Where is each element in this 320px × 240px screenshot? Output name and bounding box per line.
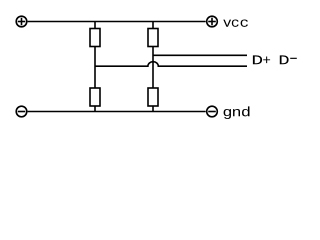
resistor R4 (bottom-right box) [148,88,158,106]
wire stub bottom of R4 [152,106,154,112]
wire stub top of R2 [152,22,154,29]
label D+ D- [253,55,289,64]
wire stub bottom of R3 [94,106,96,112]
wire stub top of R1 [94,22,96,29]
wire R2 bottom to R4 top [152,47,154,89]
resistor R3 (bottom-left box) [90,88,100,106]
terminal - bottom-left [16,106,27,117]
wire D- line with hop over vertical wire [95,62,247,67]
terminal + top-right vcc [207,16,218,27]
wire R1 bottom to R3 top [94,47,96,89]
terminal + top-left [16,16,27,27]
resistor R2 (top-right box) [148,29,158,47]
label gnd [224,106,250,119]
resistor R1 (top-left box) [90,29,100,47]
label vcc [223,19,248,26]
wire gnd rail [28,111,206,113]
label D- minus sign [290,58,297,59]
terminal - bottom-right gnd [207,106,218,117]
wire vcc rail [28,21,206,23]
wire D+ line [153,54,247,56]
